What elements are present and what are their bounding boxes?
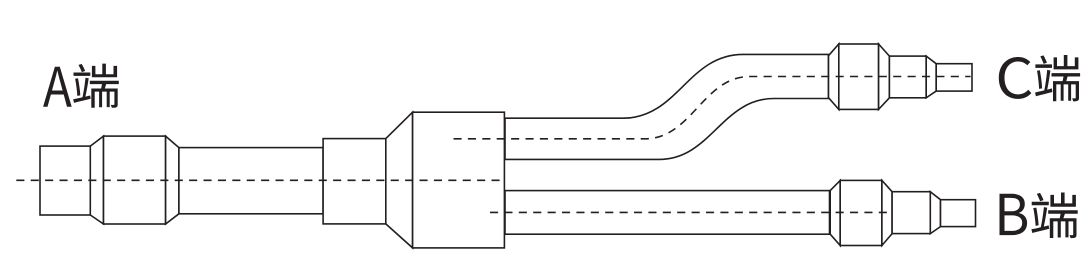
connector B middle section [892,192,930,234]
connector C contract cone [879,44,890,109]
label C duan character [1035,55,1080,101]
connector B body [840,180,882,245]
connector C small cone [926,56,936,98]
wire A expand cone [90,136,103,224]
connector C end stub [936,64,972,91]
splitter expand cone [386,112,413,248]
connector C body [839,44,879,109]
wire A main tube [179,148,323,214]
label A letter [43,67,72,107]
connector B small cone [930,192,940,234]
splitter body [413,112,505,248]
connector B expand cone [830,180,840,245]
centerline B branch [490,211,892,213]
wire A contract cone [166,136,179,224]
label B duan character [1031,193,1077,239]
connector B end stub [941,200,976,227]
wire A stub tube [40,146,90,215]
centerline main A axis [16,179,504,181]
centerline C branch [454,77,971,139]
wire C curved tube [505,54,829,159]
wire B straight tube [505,191,830,235]
connector B contract cone [882,180,892,245]
label A duan character [73,64,119,108]
label C letter [999,57,1032,99]
label B letter [1000,194,1028,235]
connector C expand cone [829,44,839,109]
connector C middle section [889,56,926,98]
wire A ferrule body [104,136,166,224]
wire A collar before splitter [323,139,386,224]
